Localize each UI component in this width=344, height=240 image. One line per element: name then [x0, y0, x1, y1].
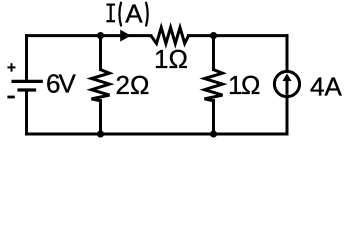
- svg-text:1Ω: 1Ω: [154, 44, 188, 74]
- wire top-right segment: [189, 34, 288, 37]
- current source I1 circle: [274, 71, 299, 96]
- wire left lower (from battery): [25, 91, 28, 135]
- battery V1 long plate (+): [12, 80, 43, 83]
- battery plus sign: [7, 63, 15, 71]
- wire right (through current source): [286, 36, 289, 134]
- svg-text:6V: 6V: [46, 68, 76, 98]
- resistor R1 1ohm horizontal zigzag: [151, 28, 189, 44]
- wire top-left segment: [27, 34, 151, 37]
- wire bottom: [27, 133, 288, 136]
- wire node1 branch lead top: [99, 36, 102, 70]
- current source arrowhead: [283, 74, 292, 82]
- label I(A): serifed I drawn as strokes: [106, 2, 147, 27]
- svg-text:A: A: [125, 0, 143, 28]
- svg-text:2Ω: 2Ω: [116, 70, 150, 100]
- wire node1 branch lead bottom: [99, 101, 102, 134]
- node dot top-right junction: [210, 32, 217, 39]
- current arrow I: [120, 30, 131, 42]
- node dot bottom-right junction: [210, 130, 217, 137]
- resistor R2 2ohm vertical zigzag: [92, 70, 110, 101]
- node dot bottom-left junction: [97, 130, 104, 137]
- wire left upper (to battery): [25, 36, 28, 81]
- wire node2 branch lead bottom: [212, 101, 215, 134]
- current source arrow shaft: [286, 80, 289, 95]
- wire node2 branch lead top: [212, 36, 215, 70]
- svg-text:1Ω: 1Ω: [228, 70, 260, 100]
- node dot top-left junction: [97, 32, 104, 39]
- resistor R3 1ohm vertical zigzag: [205, 70, 223, 101]
- battery minus sign: [7, 96, 14, 99]
- battery V1 short plate (-): [17, 88, 36, 91]
- svg-text:4A: 4A: [310, 71, 342, 101]
